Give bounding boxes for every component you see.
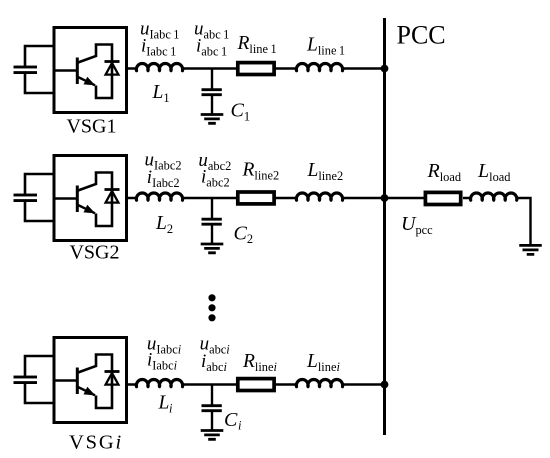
- svg-text:i: i: [169, 401, 173, 415]
- svg-text:VSG1: VSG1: [66, 116, 116, 138]
- svg-text:PCC: PCC: [397, 21, 446, 50]
- svg-text:VSGi: VSGi: [69, 432, 123, 454]
- svg-text:i: i: [238, 419, 242, 433]
- svg-text:C: C: [224, 409, 238, 431]
- svg-text:L: L: [158, 393, 170, 414]
- svg-text:VSG2: VSG2: [69, 242, 119, 264]
